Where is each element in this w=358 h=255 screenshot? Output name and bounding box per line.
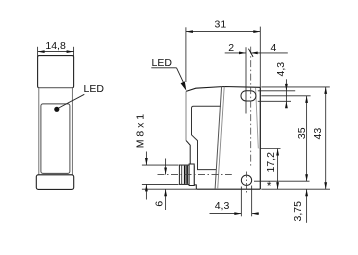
rear slant line <box>256 88 259 148</box>
dimension 4,3 top arrows <box>285 84 288 108</box>
dimension 2 arrow <box>239 52 246 55</box>
body bottom edge <box>196 188 260 190</box>
dimension 3,75 line <box>306 189 308 223</box>
dimension 35 arrows <box>305 96 308 181</box>
body bottom extension line (left side) <box>142 188 196 190</box>
connector thread mark 1 <box>184 166 186 184</box>
svg-text:M 8 x 1: M 8 x 1 <box>135 114 147 149</box>
dimension 14,8 line <box>38 51 74 53</box>
mounting slot (top) <box>241 91 256 101</box>
left view body <box>39 88 73 175</box>
dimension 31 line <box>186 31 260 33</box>
LED label underline <box>151 67 176 69</box>
svg-text:14,8: 14,8 <box>45 40 66 52</box>
dimension 31 arrows <box>186 30 260 33</box>
svg-text:4,3: 4,3 <box>215 200 230 212</box>
bottom hole centre line <box>246 172 248 193</box>
dimension 6 line upper <box>165 159 167 175</box>
dimension 6 arrows <box>164 168 167 197</box>
svg-text:4,3: 4,3 <box>275 62 287 77</box>
svg-text:31: 31 <box>215 18 227 30</box>
connector thread mark 2 <box>186 166 188 184</box>
body lower-left step <box>186 140 196 189</box>
dimension 35 extension lines <box>254 96 311 181</box>
dimension 43 line <box>325 87 327 189</box>
svg-text:35: 35 <box>296 127 308 139</box>
left view window <box>41 104 70 173</box>
dimension M8x1 line upper <box>145 152 147 166</box>
left view bottom cap <box>36 175 73 190</box>
dimension M8x1 extension lines <box>142 165 179 184</box>
slot centre line <box>250 47 252 166</box>
M8 connector barrel <box>179 165 189 184</box>
dimension 4 arrow <box>251 52 258 55</box>
dimension 4,3 bottom right leader <box>252 213 259 215</box>
svg-text:LED: LED <box>84 83 105 95</box>
svg-text:LED: LED <box>152 57 173 69</box>
dimension 43 arrows <box>324 87 327 189</box>
dimension 4,3 bottom left leader <box>210 213 242 215</box>
svg-text:*: * <box>267 181 272 193</box>
dimension M8x1 arrows <box>145 158 148 191</box>
front window slant line 1 <box>215 87 222 189</box>
svg-text:43: 43 <box>312 128 324 140</box>
dimension 2 extension line <box>245 47 247 113</box>
body right edge <box>259 87 261 189</box>
LED leader arrowhead <box>181 81 187 90</box>
LED leader (left view) <box>59 94 84 108</box>
body fill (right view) <box>186 87 260 190</box>
dimension 4,3 top extension lines <box>258 91 295 102</box>
dimension 4 leader <box>251 52 288 54</box>
svg-text:3,75: 3,75 <box>292 201 304 222</box>
dimension M8x1 line lower <box>145 184 147 199</box>
svg-text:2: 2 <box>228 42 234 54</box>
LED dot <box>54 107 59 112</box>
connector axis centre line <box>158 174 232 176</box>
dimension slash <box>248 49 253 57</box>
body top edge <box>186 87 260 92</box>
svg-text:4: 4 <box>270 42 276 54</box>
front window slant line 2 <box>218 87 225 189</box>
dimension 4,3 top line <box>285 79 287 107</box>
dimension 6 line lower <box>165 189 167 210</box>
left view top cap <box>38 56 74 88</box>
dimension 14,8 extension lines <box>38 47 74 58</box>
body left edge <box>185 91 187 140</box>
dimension 17,2 extension line <box>260 148 281 150</box>
inner bezel contour <box>192 106 222 169</box>
dimension 4,3 bottom arrows <box>234 212 258 215</box>
dimension 35 line <box>306 96 308 181</box>
dimension 3,75 arrow <box>305 189 308 196</box>
connector tip line <box>181 165 183 184</box>
dimension 4,3 bottom extension lines <box>241 186 251 217</box>
LED leader (right view) <box>177 68 186 87</box>
dimension 14,8 arrows <box>38 50 74 53</box>
svg-text:6: 6 <box>153 201 165 207</box>
connector flange <box>189 164 194 186</box>
dimension 31 extension lines <box>186 27 260 88</box>
dimension 43 extension lines <box>261 87 330 189</box>
mounting hole (bottom) <box>241 175 251 185</box>
svg-text:17,2: 17,2 <box>265 152 277 173</box>
dimension 17,2 arrows <box>276 149 279 190</box>
dimension 17,2 line <box>277 149 279 190</box>
dimension 2 leader <box>225 52 246 54</box>
